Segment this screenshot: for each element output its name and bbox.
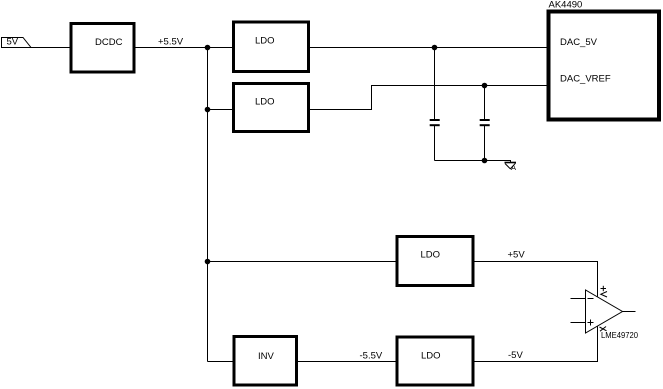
svg-text:5V: 5V: [7, 37, 19, 48]
svg-text:-5.5V: -5.5V: [360, 351, 383, 362]
svg-text:LDO: LDO: [255, 36, 275, 47]
svg-text:DAC_5V: DAC_5V: [560, 37, 598, 48]
svg-text:DAC_VREF: DAC_VREF: [560, 74, 611, 85]
svg-text:INV: INV: [258, 351, 275, 362]
svg-text:-5V: -5V: [508, 350, 523, 361]
svg-text:LDO: LDO: [255, 97, 275, 108]
svg-text:A: A: [511, 163, 516, 172]
svg-text:+5.5V: +5.5V: [158, 37, 184, 48]
svg-text:AK4490: AK4490: [549, 0, 583, 11]
svg-text:+5V: +5V: [508, 250, 526, 261]
svg-text:DCDC: DCDC: [95, 37, 123, 48]
svg-text:LDO: LDO: [421, 351, 441, 362]
svg-text:LDO: LDO: [421, 250, 441, 261]
svg-text:LME49720: LME49720: [601, 330, 638, 340]
